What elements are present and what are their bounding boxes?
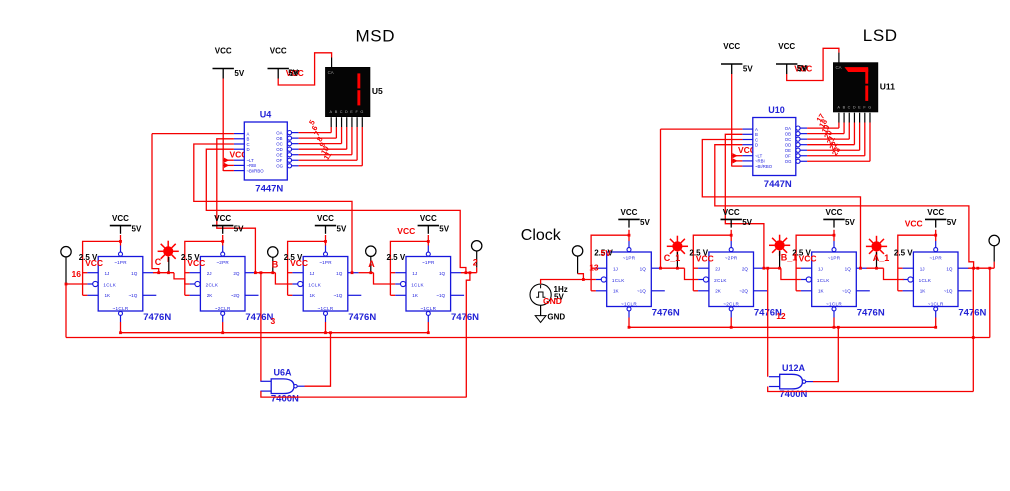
svg-text:VCC: VCC	[723, 42, 740, 51]
svg-text:CA: CA	[328, 70, 334, 75]
svg-text:~1Q: ~1Q	[842, 288, 851, 293]
svg-text:1K: 1K	[105, 293, 112, 298]
svg-text:VCC: VCC	[778, 42, 795, 51]
svg-text:OE: OE	[785, 148, 791, 153]
svg-text:1K: 1K	[412, 293, 419, 298]
svg-text:OE: OE	[276, 153, 282, 158]
svg-text:GND: GND	[547, 313, 565, 322]
svg-text:OA: OA	[785, 126, 791, 131]
svg-text:~1Q: ~1Q	[128, 293, 137, 298]
svg-text:5V: 5V	[132, 224, 142, 233]
svg-text:~1Q: ~1Q	[333, 293, 342, 298]
svg-text:5V: 5V	[797, 64, 807, 73]
svg-text:5V: 5V	[947, 218, 957, 227]
svg-text:OD: OD	[785, 142, 791, 147]
svg-text:5V: 5V	[845, 218, 855, 227]
svg-text:C: C	[848, 105, 851, 109]
svg-text:G: G	[360, 110, 363, 114]
svg-text:1CLK: 1CLK	[411, 283, 424, 288]
svg-text:VCC: VCC	[799, 253, 817, 263]
svg-text:D: D	[853, 105, 856, 109]
svg-text:~BI/RBO: ~BI/RBO	[247, 168, 265, 173]
svg-text:1K: 1K	[310, 293, 317, 298]
svg-text:2K: 2K	[715, 288, 722, 293]
svg-text:2.5 V: 2.5 V	[387, 253, 406, 262]
svg-text:~1Q: ~1Q	[637, 288, 646, 293]
svg-text:5V: 5V	[337, 224, 347, 233]
svg-text:1Q: 1Q	[439, 271, 446, 276]
svg-text:~1PR: ~1PR	[114, 260, 127, 265]
svg-text:2: 2	[473, 258, 478, 268]
svg-text:~1PR: ~1PR	[828, 255, 841, 260]
svg-text:2Q: 2Q	[233, 271, 240, 276]
svg-text:1K: 1K	[613, 288, 620, 293]
svg-text:~BI/RBO: ~BI/RBO	[755, 164, 773, 169]
svg-text:~1PR: ~1PR	[422, 260, 435, 265]
svg-text:1CLK: 1CLK	[103, 283, 116, 288]
svg-text:1K: 1K	[818, 288, 825, 293]
svg-text:7476N: 7476N	[245, 312, 273, 323]
svg-text:2Q: 2Q	[742, 266, 749, 271]
svg-text:C_1: C_1	[664, 253, 681, 263]
svg-text:~2Q: ~2Q	[739, 288, 748, 293]
svg-text:OB: OB	[276, 136, 282, 141]
svg-text:C: C	[340, 110, 343, 114]
svg-text:OG: OG	[276, 164, 283, 169]
svg-text:5V: 5V	[439, 224, 449, 233]
svg-text:5V: 5V	[640, 218, 650, 227]
svg-text:G: G	[868, 105, 871, 109]
svg-text:B: B	[272, 259, 279, 269]
svg-text:OC: OC	[785, 137, 791, 142]
svg-text:~1CLR: ~1CLR	[318, 306, 334, 311]
svg-text:2J: 2J	[715, 266, 720, 271]
svg-text:VCC: VCC	[215, 47, 232, 56]
svg-text:VCC: VCC	[397, 226, 415, 236]
svg-text:E: E	[350, 110, 353, 114]
svg-text:2CLK: 2CLK	[714, 278, 727, 283]
svg-text:VCC: VCC	[214, 214, 231, 223]
svg-text:D: D	[345, 110, 348, 114]
svg-text:~1CLR: ~1CLR	[826, 301, 842, 306]
svg-text:7476N: 7476N	[857, 307, 885, 318]
svg-text:Clock: Clock	[521, 227, 562, 244]
svg-text:OF: OF	[276, 158, 282, 163]
svg-text:~1CLR: ~1CLR	[113, 306, 129, 311]
svg-text:VCC: VCC	[696, 253, 714, 263]
svg-text:~1CLR: ~1CLR	[420, 306, 436, 311]
svg-text:A: A	[368, 259, 375, 269]
svg-text:U12A: U12A	[782, 363, 806, 373]
svg-text:D: D	[247, 147, 250, 152]
svg-text:5V: 5V	[742, 218, 752, 227]
svg-text:A: A	[330, 110, 333, 114]
svg-text:1CLK: 1CLK	[817, 278, 830, 283]
svg-text:~1PR: ~1PR	[319, 260, 332, 265]
svg-text:U6A: U6A	[274, 368, 293, 378]
svg-text:1Q: 1Q	[845, 266, 852, 271]
svg-text:7476N: 7476N	[958, 307, 986, 318]
svg-text:1Q: 1Q	[336, 271, 343, 276]
svg-text:CA: CA	[836, 65, 842, 70]
svg-text:~2CLR: ~2CLR	[723, 301, 739, 306]
svg-text:5V: 5V	[288, 69, 298, 78]
svg-text:7476N: 7476N	[348, 312, 376, 323]
svg-text:2J: 2J	[207, 271, 212, 276]
svg-text:1J: 1J	[105, 271, 110, 276]
svg-text:C: C	[155, 257, 162, 267]
svg-text:7400N: 7400N	[779, 389, 807, 400]
svg-text:~2PR: ~2PR	[725, 255, 738, 260]
svg-text:MSD: MSD	[356, 27, 396, 46]
svg-text:VCC: VCC	[85, 258, 103, 268]
svg-text:U10: U10	[768, 105, 785, 115]
svg-text:OF: OF	[785, 154, 791, 159]
svg-text:VCC: VCC	[420, 214, 437, 223]
svg-text:5V: 5V	[234, 69, 244, 78]
svg-text:5V: 5V	[234, 224, 244, 233]
svg-text:VCC: VCC	[270, 47, 287, 56]
svg-text:VCC: VCC	[826, 208, 843, 217]
svg-text:~1CLR: ~1CLR	[621, 301, 637, 306]
svg-text:OB: OB	[785, 131, 791, 136]
svg-text:13: 13	[589, 263, 599, 273]
svg-text:1J: 1J	[613, 266, 618, 271]
svg-text:7476N: 7476N	[143, 312, 171, 323]
svg-text:1Q: 1Q	[946, 266, 953, 271]
svg-text:VCC: VCC	[927, 208, 944, 217]
svg-text:OD: OD	[276, 147, 282, 152]
svg-text:1J: 1J	[412, 271, 417, 276]
svg-text:B_1: B_1	[781, 253, 798, 263]
svg-text:VCC: VCC	[290, 258, 308, 268]
svg-text:VCC: VCC	[187, 258, 205, 268]
svg-text:7476N: 7476N	[652, 307, 680, 318]
svg-text:1J: 1J	[920, 266, 925, 271]
svg-text:12: 12	[776, 311, 786, 321]
svg-text:E: E	[858, 105, 861, 109]
svg-text:2.5 V: 2.5 V	[894, 249, 913, 258]
svg-text:1CLK: 1CLK	[308, 283, 321, 288]
svg-text:7447N: 7447N	[255, 184, 283, 195]
svg-text:~1PR: ~1PR	[929, 255, 942, 260]
svg-text:GND: GND	[543, 296, 562, 306]
svg-text:~2PR: ~2PR	[216, 260, 229, 265]
svg-text:1J: 1J	[310, 271, 315, 276]
svg-text:7447N: 7447N	[764, 179, 792, 190]
svg-text:5V: 5V	[743, 65, 753, 74]
svg-text:~2Q: ~2Q	[231, 293, 240, 298]
svg-text:U5: U5	[372, 86, 383, 96]
svg-text:LSD: LSD	[863, 26, 898, 45]
svg-text:A: A	[837, 105, 840, 109]
svg-text:~1CLR: ~1CLR	[928, 301, 944, 306]
svg-text:7476N: 7476N	[451, 312, 479, 323]
svg-text:U11: U11	[880, 81, 895, 91]
svg-text:VCC: VCC	[317, 214, 334, 223]
svg-text:OC: OC	[276, 141, 282, 146]
svg-text:OG: OG	[785, 159, 792, 164]
svg-text:VCC: VCC	[723, 208, 740, 217]
svg-text:1Q: 1Q	[131, 271, 138, 276]
svg-text:~2CLR: ~2CLR	[215, 306, 231, 311]
svg-text:1CLK: 1CLK	[919, 278, 932, 283]
svg-text:2K: 2K	[207, 293, 214, 298]
svg-text:VCC: VCC	[621, 208, 638, 217]
svg-text:~1PR: ~1PR	[623, 255, 636, 260]
svg-text:3: 3	[271, 316, 276, 326]
svg-text:2CLK: 2CLK	[206, 283, 219, 288]
svg-text:1Q: 1Q	[640, 266, 647, 271]
svg-text:1K: 1K	[920, 288, 927, 293]
svg-text:OA: OA	[276, 130, 282, 135]
svg-text:16: 16	[72, 269, 82, 279]
svg-text:1J: 1J	[818, 266, 823, 271]
svg-text:5V: 5V	[601, 248, 612, 258]
svg-text:~1Q: ~1Q	[436, 293, 445, 298]
svg-text:VCC: VCC	[112, 214, 129, 223]
svg-text:VCC: VCC	[905, 218, 923, 228]
svg-text:U4: U4	[260, 110, 272, 120]
svg-text:1CLK: 1CLK	[612, 278, 625, 283]
svg-text:B: B	[335, 110, 338, 114]
svg-text:7400N: 7400N	[271, 394, 299, 405]
svg-text:D: D	[755, 143, 758, 148]
svg-text:A_1: A_1	[873, 253, 890, 263]
svg-text:~1Q: ~1Q	[944, 288, 953, 293]
